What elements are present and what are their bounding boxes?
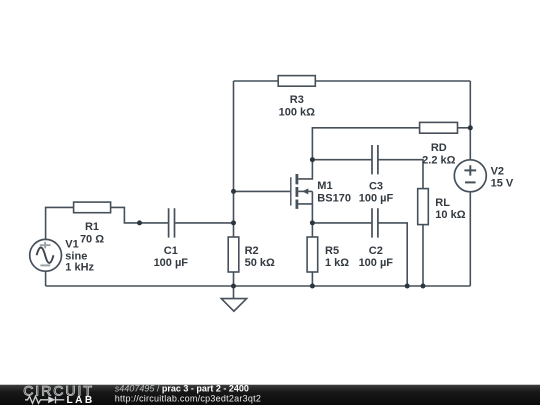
svg-text:15 V: 15 V	[491, 178, 514, 190]
svg-text:RL: RL	[435, 197, 450, 209]
resistor RL	[418, 189, 466, 225]
wire supply vertical V2 bottom	[469, 192, 471, 286]
svg-text:M1: M1	[317, 180, 332, 192]
wire supply vertical V2 top	[469, 81, 471, 160]
svg-text:100 µF: 100 µF	[359, 257, 394, 269]
logo diode arrow	[48, 396, 55, 403]
junction RD right on supply	[468, 125, 473, 130]
svg-text:C1: C1	[164, 245, 178, 257]
source V2 (15 V)	[454, 160, 514, 192]
wire source node to C2	[312, 222, 371, 224]
junction C2 branch on rail	[405, 284, 410, 289]
svg-text:50 kΩ: 50 kΩ	[245, 257, 275, 269]
wire ground stub	[233, 286, 235, 299]
svg-text:BS170: BS170	[317, 192, 351, 204]
svg-text:V1: V1	[65, 239, 78, 251]
logo waveform glyph	[25, 396, 64, 403]
wire V1 top to R1	[46, 207, 74, 239]
wire top rail left segment (R3 left to left vertical)	[234, 80, 279, 82]
wire M1 body lead	[298, 190, 312, 192]
junction RL on rail	[421, 284, 426, 289]
junction R5 on rail	[310, 284, 315, 289]
wire drain node to C3	[312, 159, 371, 161]
wire R5 top	[311, 223, 313, 237]
svg-text:R3: R3	[290, 94, 304, 106]
svg-text:R1: R1	[85, 221, 99, 233]
wire M1 source lead down	[298, 191, 312, 223]
wire gate horizontal	[234, 190, 291, 192]
wire top rail right segment (R3 right to right vertical)	[315, 80, 470, 82]
svg-text:100 µF: 100 µF	[359, 192, 394, 204]
svg-text:100 kΩ: 100 kΩ	[279, 106, 316, 118]
wire M1 drain up to node	[298, 160, 312, 179]
resistor RD	[420, 122, 458, 166]
wire C2 right down to rail	[378, 223, 407, 286]
svg-text:s4407495 / prac 3 - part 2 - 2: s4407495 / prac 3 - part 2 - 2400	[115, 384, 249, 394]
svg-text:100 µF: 100 µF	[154, 257, 189, 269]
ground	[221, 299, 246, 312]
resistor R3	[278, 76, 315, 119]
svg-text:R2: R2	[245, 245, 259, 257]
junction rail/ground	[231, 284, 236, 289]
junction source node	[310, 220, 315, 225]
wire bottom rail	[46, 285, 471, 287]
wire R1 right step down to C1	[111, 207, 168, 223]
svg-text:1 kΩ: 1 kΩ	[325, 257, 349, 269]
svg-text:10 kΩ: 10 kΩ	[435, 209, 465, 221]
svg-text:2.2 kΩ: 2.2 kΩ	[422, 154, 455, 166]
svg-text:sine: sine	[65, 250, 87, 262]
wire R2 bottom	[233, 272, 235, 286]
svg-text:R5: R5	[325, 245, 339, 257]
capacitor C2	[359, 208, 394, 269]
svg-text:http://circuitlab.com/cp3edt2a: http://circuitlab.com/cp3edt2ar3qt2	[115, 394, 261, 404]
resistor R1	[74, 202, 111, 245]
junction after R1 step	[137, 220, 142, 225]
svg-text:70 Ω: 70 Ω	[80, 233, 104, 245]
wire R5 bottom	[311, 272, 313, 286]
capacitor C1	[154, 208, 189, 269]
svg-text:1 kHz: 1 kHz	[65, 262, 94, 274]
transistor M1 (BS170 NMOS)	[291, 174, 351, 209]
wire RL bottom	[422, 225, 424, 286]
svg-text:V2: V2	[491, 166, 504, 178]
footer bar	[0, 385, 540, 405]
svg-text:RD: RD	[431, 142, 447, 154]
source V1 (sine 1 kHz)	[30, 239, 95, 274]
wire C3 right to RL top	[378, 160, 423, 189]
wire left vertical (gate net: top rail down to R2)	[233, 81, 235, 237]
resistor R5	[307, 237, 349, 272]
capacitor C3	[359, 145, 394, 204]
wire RD right to supply vertical	[458, 127, 471, 129]
svg-text:C2: C2	[369, 245, 383, 257]
wire C1 right to gate column	[175, 222, 233, 224]
junction gate T	[231, 189, 236, 194]
svg-text:LAB: LAB	[67, 395, 95, 405]
junction drain node	[310, 157, 315, 162]
resistor R2	[228, 237, 275, 272]
wire V1 bottom	[45, 271, 47, 286]
wire drain node up to RD left	[312, 128, 419, 160]
junction C1/R2	[231, 220, 236, 225]
svg-text:C3: C3	[369, 180, 383, 192]
